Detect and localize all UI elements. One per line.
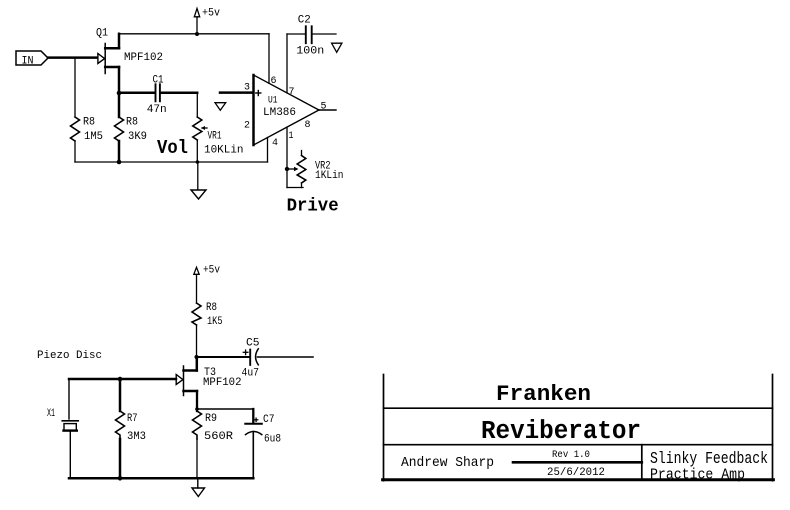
svg-text:C5: C5 [246,338,260,350]
svg-text:R9: R9 [205,413,217,425]
svg-text:1KLin: 1KLin [315,170,344,182]
svg-text:R8: R8 [206,302,217,314]
svg-text:25/6/2012: 25/6/2012 [547,467,605,479]
svg-text:Piezo Disc: Piezo Disc [37,350,102,362]
svg-text:C1: C1 [153,75,164,87]
svg-text:5: 5 [321,101,327,113]
svg-text:U1: U1 [268,95,278,107]
svg-text:3: 3 [244,82,250,94]
svg-text:2: 2 [244,120,250,132]
svg-text:VR1: VR1 [208,131,222,143]
svg-text:MPF102: MPF102 [203,377,242,389]
svg-text:C2: C2 [298,15,311,27]
svg-text:IN: IN [22,55,34,67]
svg-text:Reviberator: Reviberator [481,416,641,446]
svg-text:R8: R8 [83,117,95,129]
svg-text:1M5: 1M5 [84,131,103,143]
svg-text:4: 4 [272,137,278,149]
svg-text:3K9: 3K9 [128,131,147,143]
svg-text:560R: 560R [204,431,233,443]
svg-text:+5v: +5v [203,265,220,277]
svg-text:R8: R8 [126,117,138,129]
svg-text:X1: X1 [47,408,55,420]
svg-text:8: 8 [305,119,311,131]
svg-text:Vol: Vol [157,138,188,159]
svg-text:Rev 1.0: Rev 1.0 [552,449,590,460]
svg-text:6: 6 [271,75,277,87]
svg-text:10KLin: 10KLin [204,144,244,156]
svg-text:6u8: 6u8 [264,434,281,446]
svg-text:C7: C7 [263,414,275,426]
svg-text:Q1: Q1 [96,28,108,40]
svg-text:R7: R7 [127,413,138,425]
svg-text:MPF102: MPF102 [124,52,163,64]
svg-text:7: 7 [289,86,295,98]
svg-text:Practice Amp: Practice Amp [650,467,745,484]
svg-text:+5v: +5v [202,8,220,20]
svg-text:Slinky Feedback: Slinky Feedback [650,448,768,468]
svg-text:100n: 100n [296,46,324,58]
svg-text:Andrew Sharp: Andrew Sharp [401,456,494,472]
svg-text:Drive: Drive [287,196,339,217]
svg-text:4u7: 4u7 [242,368,260,380]
svg-text:LM386: LM386 [263,107,296,119]
svg-text:1: 1 [289,130,294,142]
svg-text:47n: 47n [147,104,167,116]
svg-text:1K5: 1K5 [207,316,223,328]
svg-text:3M3: 3M3 [127,431,146,443]
svg-text:Franken: Franken [496,381,591,407]
